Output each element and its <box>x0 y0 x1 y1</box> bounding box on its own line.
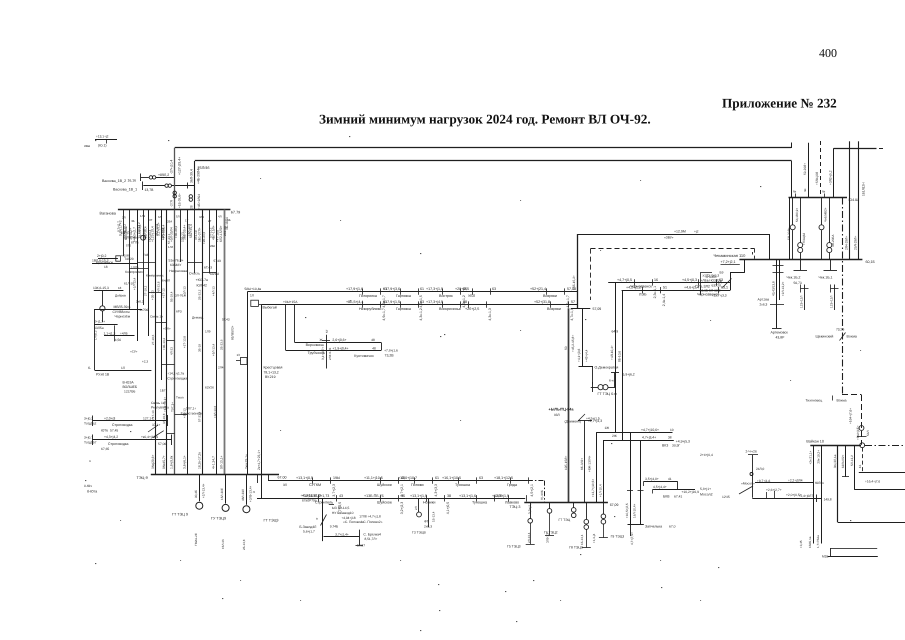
svg-text:Компромисс: Компромисс <box>125 270 144 274</box>
svg-text:4,3к-1,3: 4,3к-1,3 <box>488 308 492 320</box>
svg-text:73,2В: 73,2В <box>385 354 395 358</box>
svg-text:+2,2+j0Л4: +2,2+j0Л4 <box>788 479 803 483</box>
svg-text:+1б,4+j7,6: +1б,4+j7,6 <box>865 479 880 483</box>
svg-text:Туношна: Туношна <box>472 501 488 505</box>
svg-text:Васкова_1В_1: Васкова_1В_1 <box>113 188 137 192</box>
line M2 chain <box>261 304 577 306</box>
svg-text:30,5Г: 30,5Г <box>672 443 680 447</box>
station tap R2a <box>642 287 644 293</box>
svg-text:б-Юта: б-Юта <box>87 490 97 494</box>
link wire <box>149 292 162 294</box>
svg-text:Т97,1+: Т97,1+ <box>170 402 174 412</box>
feeder line x=224 <box>224 210 226 475</box>
svg-text:6Т,43: 6Т,43 <box>204 266 212 270</box>
svg-text:+5Л-13,4: +5Л-13,4 <box>212 343 216 356</box>
svg-text:бРЗ: бРЗ <box>176 310 182 314</box>
svg-text:4,3+j3,3: 4,3+j3,3 <box>434 484 438 497</box>
svg-text:67,0: 67,0 <box>669 525 676 529</box>
svg-text:СУГКМ: СУГКМ <box>309 483 321 487</box>
svg-text:Вохряки: Вохряки <box>543 294 557 298</box>
svg-text:+8Ж-13Л4+: +8Ж-13Л4+ <box>587 455 591 472</box>
svg-text:Востряк: Востряк <box>439 294 453 298</box>
svg-text:Тотд5б7: Тотд5б7 <box>84 440 97 444</box>
svg-text:+3Л2+j5,2: +3Л2+j5,2 <box>828 170 832 185</box>
svg-text:19Б-15Л+: 19Б-15Л+ <box>564 456 568 470</box>
svg-text:0-Юч: 0-Юч <box>84 484 92 488</box>
svg-text:+ЫЛЫТЦ-84а: +ЫЛЫТЦ-84а <box>549 408 575 412</box>
svg-text:4,7+j3,4+: 4,7+j3,4+ <box>642 436 656 440</box>
station tap R1b <box>698 279 700 285</box>
svg-text:2x6,3: 2x6,3 <box>760 303 768 307</box>
svg-text:Связь 1и: Связь 1и <box>150 315 163 319</box>
svg-text:ГЗ ТЭЦВ: ГЗ ТЭЦВ <box>412 531 426 535</box>
svg-text:2Л4: 2Л4 <box>218 366 224 370</box>
svg-text:2Т-19,2: 2Т-19,2 <box>144 285 148 296</box>
feeder line x=175 <box>174 210 176 475</box>
svg-text:43,8Р: 43,8Р <box>776 336 786 340</box>
svg-text:Г8 ТЭЦ3: Г8 ТЭЦ3 <box>569 546 583 550</box>
svg-text:+1Л-10,4: +1Л-10,4 <box>599 484 603 497</box>
chain A-B 2 <box>792 198 794 225</box>
svg-text:64,9: 64,9 <box>612 330 619 334</box>
svg-text:+6Л-13,8: +6Л-13,8 <box>187 223 191 236</box>
svg-text:60,1Б: 60,1Б <box>866 260 876 264</box>
svg-text:61: 61 <box>420 287 424 291</box>
wire Мосол <box>752 498 821 500</box>
svg-text:6Т7Б: 6Т7Б <box>131 241 139 245</box>
svg-text:Стреговодка: Стреговодка <box>167 377 187 381</box>
svg-text:3+j0,2: 3+j0,2 <box>84 417 93 421</box>
svg-text:9,74Б: 9,74Б <box>330 524 338 528</box>
station tap УБЛ on M1 <box>472 288 474 294</box>
svg-text:3Л6: 3Л6 <box>199 215 205 219</box>
svg-text:+ЛБЫ ЮЗЛ2а: +ЛБЫ ЮЗЛ2а <box>701 278 722 282</box>
svg-text:2Б-23,2: 2Б-23,2 <box>197 289 201 300</box>
svg-text:Шуйское: Шуйское <box>377 483 392 487</box>
svg-text:СУУВ8лом: СУУВ8лом <box>113 310 131 314</box>
circle joint <box>100 306 105 311</box>
svg-text:Стреговодка: Стреговодка <box>112 423 133 427</box>
right horizontal y522 <box>838 522 905 524</box>
svg-text:2Л9-13: 2Л9-13 <box>181 232 185 242</box>
station tap +26+j2,5 on M2 <box>468 301 470 307</box>
svg-text:Тихоновец: Тихоновец <box>806 399 823 403</box>
svg-text:+7,8+j1,6: +7,8+j1,6 <box>384 349 398 353</box>
svg-text:О.Демократия: О.Демократия <box>595 365 619 369</box>
svg-text:3Т: 3Т <box>149 218 153 222</box>
svg-text:ГТ ТЭЦ 9: ГТ ТЭЦ 9 <box>172 513 188 517</box>
svg-text:+2Б-13: +2Б-13 <box>183 408 187 418</box>
svg-text:3,2+j2,3: 3,2+j2,3 <box>400 502 404 515</box>
svg-text:ТЭЦ-3: ТЭЦ-3 <box>510 505 521 509</box>
corner bottom right <box>830 548 877 550</box>
svg-text:2Л4+1Л3: 2Л4+1Л3 <box>328 347 332 360</box>
drop feeder x813 <box>813 445 815 543</box>
svg-text:Ж: Ж <box>320 338 323 342</box>
vertical x808 <box>808 143 810 198</box>
junction tick <box>187 183 189 189</box>
generator Г9 ТЭЦ3 <box>603 502 605 514</box>
svg-text:67,65: 67,65 <box>101 447 109 451</box>
link wire <box>203 272 217 274</box>
svg-text:Г7 ТЭЦ: Г7 ТЭЦ <box>559 518 571 522</box>
svg-text:ФТ: ФТ <box>424 520 428 524</box>
wire С.Брелка <box>324 536 360 538</box>
svg-text:+1,9+j0,4+: +1,9+j0,4+ <box>332 347 348 351</box>
vertical x849 <box>849 141 851 259</box>
feeder line x=202 <box>202 210 204 475</box>
svg-text:+45,2-15,8+: +45,2-15,8+ <box>571 335 575 352</box>
svg-text:2Б-13,8: 2Б-13,8 <box>242 539 246 550</box>
svg-text:29к-19,2+: 29к-19,2+ <box>817 450 821 464</box>
svg-text:Г5 ТЭЦ3: Г5 ТЭЦ3 <box>507 544 521 548</box>
bus A 104Ш <box>789 197 848 199</box>
svg-text:+13,0+j10,7: +13,0+j10,7 <box>398 476 417 480</box>
terminal tick Васкова_1В_1 <box>142 182 144 191</box>
svg-text:12Ч5: 12Ч5 <box>722 495 730 499</box>
svg-text:57: 57 <box>571 300 575 304</box>
svg-text:+17,3+j4,5: +17,3+j4,5 <box>426 300 443 304</box>
svg-text:+17,9+j1,6: +17,9+j1,6 <box>346 287 363 291</box>
svg-text:РУэб 1В: РУэб 1В <box>96 373 110 377</box>
svg-text:13: 13 <box>237 353 241 357</box>
corner wire B <box>604 440 674 442</box>
svg-text:63ЛЫЛ2+: 63ЛЫЛ2+ <box>841 454 845 468</box>
feeder line x=181 <box>180 210 182 262</box>
svg-text:2+4+j0,4: 2+4+j0,4 <box>700 453 713 457</box>
svg-text:9: 9 <box>252 491 256 493</box>
station tap Некорублево on M2 <box>362 301 364 307</box>
wire L2 corner down <box>791 161 793 198</box>
feeder line x=162 <box>161 210 163 380</box>
svg-text:Гарговка: Гарговка <box>396 294 412 298</box>
svg-text:«С. Попово2»: «С. Попово2» <box>361 520 382 524</box>
svg-text:4Л-23: 4Л-23 <box>170 347 174 355</box>
svg-text:5Л-13,2: 5Л-13,2 <box>208 227 212 238</box>
station tap Туношна on LL2 <box>476 495 478 501</box>
transformer T2 (two circles) <box>165 184 168 187</box>
svg-text:2Б6: 2Б6 <box>210 244 216 248</box>
svg-text:3,4+j0,7+: 3,4+j0,7+ <box>321 347 325 360</box>
svg-text:29Л-29Л+: 29Л-29Л+ <box>853 236 857 250</box>
svg-text:5Т,43: 5Т,43 <box>222 318 230 322</box>
svg-text:ВКЗ: ВКЗ <box>662 443 668 447</box>
svg-text:+0,7+j1,6: +0,7+j1,6 <box>757 479 771 483</box>
svg-text:67,09: 67,09 <box>610 503 619 507</box>
terminal tick Васкова_1В_2 <box>140 174 142 182</box>
svg-text:1Л4: 1Л4 <box>168 245 174 249</box>
svg-text:3Л: 3Л <box>283 483 287 487</box>
svg-text:63: 63 <box>479 476 483 480</box>
vertical x858 <box>858 141 860 259</box>
svg-text:+13,1+j1,5: +13,1+j1,5 <box>410 494 427 498</box>
svg-text:Г9 ТЭЦ3: Г9 ТЭЦ3 <box>611 534 625 538</box>
svg-text:3Т2-19: 3Т2-19 <box>194 230 198 240</box>
svg-text:+2Т-13: +2Т-13 <box>162 288 166 298</box>
wire into Вайкан left <box>755 482 813 484</box>
svg-text:9,7+j1,7: 9,7+j1,7 <box>117 221 121 232</box>
svg-text:+13,1+j2: +13,1+j2 <box>96 135 109 139</box>
bus stub top y234 <box>577 234 770 236</box>
feeder Артемовск <box>776 259 778 328</box>
ticks on Мосол wire <box>766 492 768 498</box>
svg-text:+4Л-13: +4Л-13 <box>211 286 215 296</box>
line LL2 <box>257 498 525 500</box>
svg-text:ЛЭБ: ЛЭБ <box>639 292 647 296</box>
svg-text:+17,3+j1,5: +17,3+j1,5 <box>426 287 443 291</box>
svg-text:Новики: Новики <box>423 501 435 505</box>
station tap Воскресенье on M2 <box>442 301 444 307</box>
svg-text:54Л: 54Л <box>866 431 870 436</box>
svg-text:Шуйское: Шуйское <box>377 501 392 505</box>
feeder line x=209 <box>209 210 211 274</box>
cluster 2x63 <box>418 498 420 512</box>
svg-text:4Л-23,8: 4Л-23,8 <box>157 281 161 292</box>
stub Доброе <box>92 263 138 265</box>
svg-text:+3Б-29,2: +3Б-29,2 <box>174 225 178 238</box>
svg-text:+3,45: +3,45 <box>799 540 803 548</box>
transformer T1 (two circles) <box>149 176 152 179</box>
svg-text:Демокр.: Демокр. <box>192 316 204 320</box>
svg-text:43,43/13,8: 43,43/13,8 <box>771 281 775 296</box>
wire M1 left corner <box>247 292 249 475</box>
svg-text:ГУ ТЭЦ9: ГУ ТЭЦ9 <box>211 517 226 521</box>
svg-text:1,7+7Б2а: 1,7+7Б2а <box>816 535 820 548</box>
svg-text:Гряда: Гряда <box>507 483 518 487</box>
station tap Строитель on LL2 <box>318 495 320 501</box>
svg-text:2Л4-29Л+: 2Л4-29Л+ <box>844 236 848 250</box>
long vertical to ТЭЦ-3 <box>568 308 570 502</box>
svg-text:48: 48 <box>372 347 376 351</box>
svg-text:122Л36: 122Л36 <box>124 390 135 394</box>
svg-text:Гарговка: Гарговка <box>396 307 412 311</box>
svg-text:ТВ2Ы-2Е: ТВ2Ы-2Е <box>194 533 198 546</box>
svg-text:5Л-13,2: 5Л-13,2 <box>850 455 854 466</box>
svg-text:+13,7+j3,3: +13,7+j3,3 <box>712 293 727 297</box>
svg-text:Чернозём: Чернозём <box>115 315 131 319</box>
svg-text:58Ы+10,4в: 58Ы+10,4в <box>245 287 262 291</box>
svg-text:5,6+j1,7: 5,6+j1,7 <box>303 530 315 534</box>
svg-text:2Т-19,6: 2Т-19,6 <box>151 334 155 345</box>
svg-text:36Л-39,4: 36Л-39,4 <box>189 169 193 183</box>
svg-text:ЗЛ9-13: ЗЛ9-13 <box>546 533 550 543</box>
stub РУэ6 <box>95 370 151 372</box>
svg-text:+26+j2,5: +26+j2,5 <box>465 307 479 311</box>
feeder line x=156 <box>155 210 157 475</box>
line R2 chain <box>622 290 731 292</box>
svg-text:+13,1+j0,5: +13,1+j0,5 <box>296 476 313 480</box>
svg-text:ова: ова <box>84 144 90 148</box>
stub y291 <box>94 290 124 292</box>
branch wire Бурковка <box>286 350 382 352</box>
feeder V2 <box>194 161 196 210</box>
gen ТЭЦ6 branch <box>592 367 594 385</box>
svg-text:4Б: 4Б <box>131 219 135 223</box>
CT circles on V1 <box>173 191 176 194</box>
scan specks 2 <box>260 178 261 179</box>
svg-text:17Л8 +4,7+j1,8: 17Л8 +4,7+j1,8 <box>359 515 381 519</box>
svg-text:4,56: 4,56 <box>115 338 121 342</box>
wire to transformer 2 <box>143 185 165 187</box>
svg-text:4Я-20БА: 4Я-20БА <box>831 234 835 247</box>
svg-text:5,8+j1+: 5,8+j1+ <box>700 487 711 491</box>
svg-text:+2,4+j0Л7: +2,4+j0Л7 <box>799 494 814 498</box>
svg-text:+4,7+j0,5: +4,7+j0,5 <box>617 278 632 282</box>
svg-text:63: 63 <box>420 300 424 304</box>
generator Г7 ТЭЦ <box>573 502 575 507</box>
generator Г2 ТЭЦ9 <box>225 474 227 503</box>
svg-text:+2Л-19,6: +2Л-19,6 <box>161 227 165 240</box>
svg-text:4+1,34,7: 4+1,34,7 <box>212 456 216 469</box>
svg-text:1ВЛ,6-15,3: 1ВЛ,6-15,3 <box>92 259 109 263</box>
svg-text:1Л9: 1Л9 <box>205 330 211 334</box>
svg-text:3,7+j2,3: 3,7+j2,3 <box>332 484 336 497</box>
svg-text:5Б-19,4: 5Б-19,4 <box>170 291 174 302</box>
link LL1 to ТЭЦ-3 bus <box>544 481 546 503</box>
svg-text:28: 28 <box>189 205 193 209</box>
svg-text:б-: б- <box>88 366 91 370</box>
svg-text:№: № <box>793 190 797 194</box>
svg-text:М1Б: М1Б <box>822 555 829 559</box>
drop feeder x845 <box>845 445 847 477</box>
wire to transformer 1 <box>141 177 149 179</box>
svg-text:3Л-19,8: 3Л-19,8 <box>162 413 166 424</box>
svg-text:19Ы: 19Ы <box>333 476 340 480</box>
svg-text:ГТ ТЭЦ9: ГТ ТЭЦ9 <box>264 519 279 523</box>
svg-text:25Л/46: 25Л/46 <box>198 166 210 170</box>
svg-text:Погорелка: Погорелка <box>359 294 378 298</box>
svg-text:8Б-10,6: 8Б-10,6 <box>618 351 622 362</box>
svg-text:2Б-23,6: 2Б-23,6 <box>219 339 223 350</box>
svg-text:В-ЮЗА: В-ЮЗА <box>123 381 135 385</box>
station tap Гряда on LL1 <box>510 477 512 483</box>
svg-text:67.00: 67.00 <box>278 476 287 480</box>
station tap Попово on LL1 <box>414 477 416 483</box>
svg-text:57,06: 57,06 <box>158 442 166 446</box>
svg-text:1л706: 1л706 <box>139 308 148 312</box>
svg-text:1Л7,1+: 1Л7,1+ <box>186 407 196 411</box>
svg-text:+4Б+2Л94: +4Б+2Л94 <box>197 194 201 209</box>
svg-text:Мосол2: Мосол2 <box>700 492 713 496</box>
bus B Чекаминская <box>739 259 862 261</box>
svg-text:3,7+j1,4+: 3,7+j1,4+ <box>335 533 349 537</box>
svg-text:16: 16 <box>654 278 658 282</box>
svg-text:Кунтомичек: Кунтомичек <box>354 354 374 358</box>
svg-text:1Л: 1Л <box>250 294 254 298</box>
svg-text:2Ж: 2Ж <box>612 434 617 438</box>
svg-text:57,45: 57,45 <box>110 429 118 433</box>
drop feeder x854 <box>854 445 856 490</box>
line M1 Погорелка chain <box>247 291 577 293</box>
feeder line x=129 <box>129 210 131 310</box>
svg-text:9Л-13,1+: 9Л-13,1+ <box>219 455 223 469</box>
R chain downcomers <box>615 282 617 432</box>
link wire <box>129 268 148 270</box>
svg-text:+j2: +j2 <box>694 229 699 233</box>
svg-text:63У26: 63У26 <box>205 386 214 390</box>
svg-text:2Б4: 2Б4 <box>167 220 173 224</box>
svg-text:+7,2+j2,1: +7,2+j2,1 <box>721 260 736 264</box>
bus Вайкан 10 <box>810 445 861 447</box>
tick Запчелька <box>628 524 644 526</box>
svg-text:+1б4+j7,6+: +1б4+j7,6+ <box>849 408 853 424</box>
svg-text:43: 43 <box>339 494 343 498</box>
station tap Шуйское on LL1 <box>380 477 382 483</box>
component Выбегай <box>251 300 259 306</box>
svg-text:+10,2+j16,9: +10,2+j16,9 <box>682 490 700 494</box>
svg-text:63,1: 63,1 <box>721 286 728 290</box>
svg-text:Васкова_1В_2: Васкова_1В_2 <box>102 179 126 183</box>
drop feeder x838 <box>837 445 839 522</box>
svg-text:+8Ы+15А: +8Ы+15А <box>283 300 298 304</box>
svg-text:5Т-23,1: 5Т-23,1 <box>167 233 171 244</box>
svg-text:+13,1+j1,6: +13,1+j1,6 <box>459 494 476 498</box>
svg-text:149,8: 149,8 <box>824 497 832 501</box>
svg-text:67а0Р79а: 67а0Р79а <box>302 499 317 503</box>
svg-text:48: 48 <box>371 338 375 342</box>
CT circles on V2 <box>189 195 192 198</box>
svg-text:88: 88 <box>463 300 467 304</box>
svg-text:1Л: 1Л <box>121 366 125 370</box>
branch О.Демократия <box>582 308 584 366</box>
svg-text:+17,9+j1,5: +17,9+j1,5 <box>383 300 400 304</box>
svg-text:4Б2-13,8: 4Б2-13,8 <box>155 224 159 236</box>
БКВ cluster <box>644 481 678 483</box>
svg-text:Ваганова: Ваганова <box>100 212 117 216</box>
link wire <box>138 262 156 264</box>
tick y308 <box>571 308 590 310</box>
svg-text:61Л-10: 61Л-10 <box>124 282 134 286</box>
svg-text:Чек.1Б,2: Чек.1Б,2 <box>787 276 801 280</box>
svg-text:Воскресенье: Воскресенье <box>439 307 461 311</box>
svg-text:8Б-ЗЛ2+: 8Б-ЗЛ2+ <box>580 458 584 470</box>
svg-text:10: 10 <box>670 428 674 432</box>
svg-text:ВУ.219: ВУ.219 <box>265 375 276 379</box>
svg-text:93Л: 93Л <box>554 413 560 417</box>
svg-text:4,3к-1,2: 4,3к-1,2 <box>419 308 423 320</box>
svg-text:Некорублево: Некорублево <box>359 307 381 311</box>
svg-text:+4,5+j1,5: +4,5+j1,5 <box>586 416 600 420</box>
svg-text:+5Л4-j0Л: +5Л4-j0Л <box>815 172 819 185</box>
svg-text:63б48У: 63б48У <box>170 263 182 267</box>
bus ТЭЦ-9 <box>151 474 279 476</box>
drop feeder x862 dashed <box>862 448 864 473</box>
svg-text:+17,9+j3,6: +17,9+j3,6 <box>383 287 400 291</box>
svg-text:+4,1+j0,6: +4,1+j0,6 <box>577 348 581 362</box>
svg-text:85Л95Л2+: 85Л95Л2+ <box>231 325 235 340</box>
scan specks <box>349 136 350 137</box>
svg-text:+к0,4+j13,9: +к0,4+j13,9 <box>141 435 158 439</box>
svg-text:90,4Б: 90,4Б <box>194 490 198 498</box>
corner wire A <box>596 432 672 434</box>
svg-text:+2Л-13,2+: +2Л-13,2+ <box>781 281 785 296</box>
svg-text:Тwon: Тwon <box>176 396 184 400</box>
svg-text:61: 61 <box>435 476 439 480</box>
svg-text:3Л-76,8: 3Л-76,8 <box>175 294 186 298</box>
station tap Новики on LL2 <box>426 495 428 501</box>
svg-text:ЗЫ,ЗЛ,1а: ЗЫ,ЗЛ,1а <box>833 454 837 468</box>
svg-text:Тотд5а2: Тотд5а2 <box>84 422 97 426</box>
svg-text:1Б-13,4: 1Б-13,4 <box>432 511 436 522</box>
component Чек.1Б,1 <box>830 259 832 270</box>
svg-text:Т4Л20: Т4Л20 <box>124 257 134 261</box>
svg-text:16,16: 16,16 <box>128 179 137 183</box>
svg-text:Б9: Б9 <box>720 271 724 275</box>
svg-text:4,5к-1,7: 4,5к-1,7 <box>566 295 570 307</box>
wire L1 end hook <box>791 143 793 149</box>
svg-text:6Л: 6Л <box>158 215 162 219</box>
svg-text:38: 38 <box>668 436 672 440</box>
